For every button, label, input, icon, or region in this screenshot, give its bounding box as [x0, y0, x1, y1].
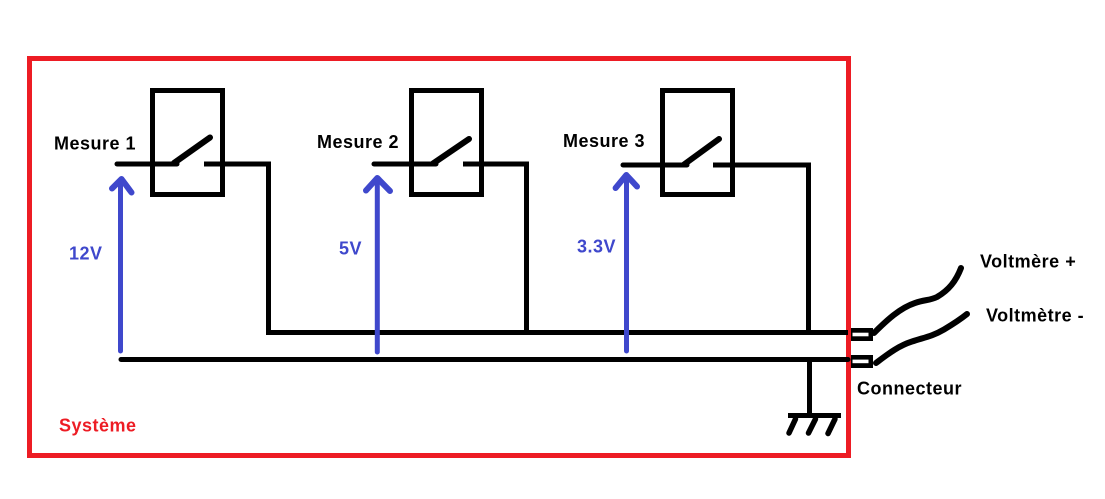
- svg-text:Mesure 3: Mesure 3: [563, 131, 645, 151]
- wire: S3 right lead and drop to upper bus: [713, 165, 809, 332]
- wire: S2 left lead: [374, 162, 436, 167]
- switch S2 blade (diagonal contact arm): [433, 139, 469, 164]
- svg-text:Mesure 1: Mesure 1: [54, 134, 136, 154]
- svg-text:Mesure 2: Mesure 2: [317, 132, 399, 152]
- svg-text:Système: Système: [59, 416, 137, 436]
- wire: S2 right lead and drop to upper bus: [463, 164, 527, 332]
- switch S3 box: [663, 91, 733, 195]
- svg-text:Connecteur: Connecteur: [857, 379, 962, 399]
- wire: S1 left lead: [117, 162, 177, 167]
- svg-text:Voltmère +: Voltmère +: [980, 252, 1076, 272]
- wire: upper bus (voltmeter + rail): [266, 330, 848, 335]
- voltage source arrow 12V (blue): [112, 179, 132, 351]
- svg-text:Voltmètre -: Voltmètre -: [986, 306, 1084, 326]
- wire: S3 left lead: [623, 163, 687, 168]
- wire: ground stem: [807, 359, 812, 415]
- switch S2 box: [412, 91, 482, 195]
- connector pad (upper contact): [851, 328, 873, 341]
- wire: curved lead to Voltmètre -: [876, 314, 967, 363]
- switch S3 blade (diagonal contact arm): [684, 139, 719, 165]
- svg-text:12V: 12V: [69, 244, 103, 264]
- voltage source arrow 5V (blue): [366, 178, 390, 352]
- voltage source arrow 3.3V (blue): [616, 175, 637, 351]
- switch S1 blade (diagonal contact arm): [174, 138, 210, 164]
- system boundary box (red): [30, 59, 849, 456]
- ground symbol: [788, 416, 841, 434]
- svg-text:5V: 5V: [339, 239, 362, 259]
- svg-text:3.3V: 3.3V: [577, 237, 616, 257]
- switch S1 box: [153, 91, 223, 195]
- connector pad (lower contact): [851, 355, 873, 368]
- wire: lower bus (voltmeter - rail): [121, 357, 848, 362]
- wire: curved lead to Voltmère +: [874, 268, 961, 333]
- wire: S1 right lead and drop to upper bus: [204, 164, 269, 332]
